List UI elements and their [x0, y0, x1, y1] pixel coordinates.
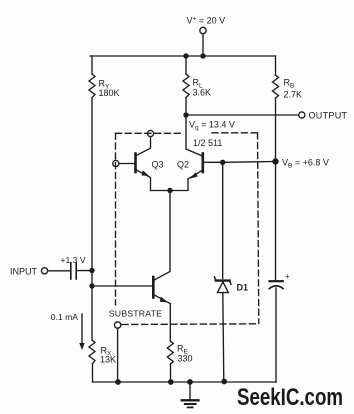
V+ terminal	[200, 27, 206, 56]
svg-text:3.6K: 3.6K	[193, 87, 212, 97]
resistor RL	[183, 56, 189, 115]
wire right rail upper	[275, 56, 277, 75]
ground	[182, 379, 199, 407]
node input junction dot	[89, 268, 94, 273]
svg-text:1/2 511: 1/2 511	[193, 138, 222, 148]
capacitor output electrolytic	[269, 281, 283, 288]
transistor Q3	[119, 137, 151, 191]
wire right rail below capacitor	[275, 288, 277, 382]
svg-text:Vq = 13.4 V: Vq = 13.4 V	[189, 120, 235, 132]
INPUT terminal	[41, 268, 47, 274]
svg-text:D1: D1	[237, 283, 249, 293]
svg-text:SeekIC.com: SeekIC.com	[237, 384, 343, 411]
wire bottom rail	[93, 381, 277, 383]
svg-text:+: +	[285, 272, 290, 281]
label RX 13K	[100, 346, 116, 365]
transistor Q2	[188, 154, 223, 180]
label RL 3.6K	[193, 78, 212, 98]
wire Q1 collector	[153, 191, 170, 281]
resistor RB	[273, 75, 279, 98]
wire top rail	[90, 55, 276, 57]
svg-text:13K: 13K	[100, 355, 116, 365]
node Q1 base junction dot	[89, 283, 94, 288]
svg-text:0.1 mA: 0.1 mA	[51, 312, 78, 322]
svg-text:SUBSTRATE: SUBSTRATE	[109, 309, 162, 319]
node RL top junction dot	[183, 53, 188, 58]
node D1 top junction dot	[220, 160, 225, 165]
svg-text:VB = +6.8 V: VB = +6.8 V	[282, 158, 329, 170]
transistor Q1	[92, 277, 170, 304]
svg-text:180K: 180K	[99, 88, 120, 98]
svg-text:OUTPUT: OUTPUT	[309, 110, 348, 120]
node D1 bottom junction dot	[221, 379, 227, 385]
svg-text:+1.3 V: +1.3 V	[61, 255, 86, 265]
label RE 330	[177, 344, 193, 364]
diode D1 zener	[214, 162, 231, 381]
wire left rail upper	[91, 56, 93, 74]
wire left rail middle	[91, 98, 93, 340]
SUBSTRATE terminal	[114, 322, 120, 382]
svg-text:V+ = 20 V: V+ = 20 V	[187, 16, 226, 26]
node Vq junction dot	[183, 112, 188, 117]
node substrate junction dot	[115, 379, 121, 385]
svg-text:INPUT: INPUT	[10, 267, 38, 277]
node VB junction dot	[272, 158, 278, 164]
wire Vq to Q2 collector	[186, 115, 203, 156]
wire Q1 emitter to RE	[169, 304, 171, 342]
node V+ junction dot	[200, 53, 205, 58]
OUTPUT terminal	[299, 112, 305, 118]
wire input to capacitor	[48, 270, 70, 272]
Q3 base terminal circle	[113, 160, 119, 166]
wire left rail lower	[92, 364, 94, 382]
wire RE to bottom rail	[170, 364, 172, 382]
current arrow 0.1 mA	[79, 314, 84, 350]
wire Q2 emitter down	[151, 179, 188, 191]
node RE bottom junction dot	[168, 379, 174, 385]
resistor RY	[89, 74, 95, 98]
resistor RX	[89, 340, 95, 364]
svg-text:RB: RB	[284, 78, 295, 90]
node emitter junction dot	[167, 188, 172, 193]
Q3 collector terminal circle	[147, 130, 153, 136]
svg-text:Q2: Q2	[177, 159, 189, 169]
svg-text:2.7K: 2.7K	[284, 90, 303, 100]
label RB 2.7K	[284, 78, 303, 100]
label RY 180K	[99, 79, 120, 99]
resistor RE	[167, 341, 173, 364]
svg-text:330: 330	[178, 354, 193, 364]
svg-text:Q3: Q3	[152, 159, 164, 169]
label V+ = 20 V	[187, 16, 226, 26]
wire output line	[186, 114, 299, 116]
wire Q2 base to VB node	[223, 161, 276, 164]
wire right rail R_B to V_B	[275, 98, 277, 281]
capacitor input coupling	[71, 263, 92, 279]
IC boundary dashed box	[116, 133, 259, 325]
